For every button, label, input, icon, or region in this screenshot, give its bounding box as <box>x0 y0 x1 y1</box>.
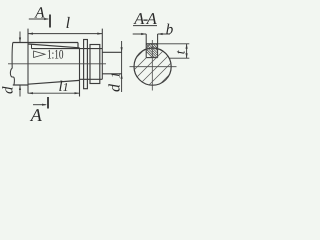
section cutting plane stroke top <box>49 15 51 28</box>
section cutting plane stroke bottom <box>47 97 49 109</box>
A-A label underline <box>133 25 157 27</box>
section arrow line top <box>29 18 48 20</box>
hatching of shaft section <box>112 22 202 112</box>
arrow: t bottom pointing down <box>186 53 188 58</box>
dimension d line segments with outside arrows <box>19 32 21 97</box>
svg-text:A: A <box>34 5 45 22</box>
wire: keyway bottom shelf and cylinder top edge <box>32 48 103 50</box>
arrow: l left <box>28 33 33 35</box>
node: step face with l extension <box>101 29 103 80</box>
svg-text:A: A <box>30 105 43 125</box>
section circle A-A <box>134 48 171 85</box>
arrow: l right <box>97 33 102 35</box>
arrow: section cut bottom pointing right <box>42 104 47 106</box>
wire: cone end face with l1 extension <box>79 48 81 97</box>
arrow: l1 left <box>28 92 33 94</box>
wire: cylinder bottom edge after cone <box>80 78 103 80</box>
arrow: section cut top pointing right <box>44 18 49 20</box>
dimension t extension lines <box>146 44 189 58</box>
arrow: b left pointing right <box>141 33 146 35</box>
section vertical centerline <box>151 40 153 91</box>
svg-text:l: l <box>66 15 71 32</box>
wire: cone top generatrix <box>28 44 80 48</box>
svg-text:l1: l1 <box>59 79 69 95</box>
arrow: d top pointing down <box>19 38 21 43</box>
section horizontal centerline <box>130 66 177 68</box>
dimension d1 line <box>121 41 123 92</box>
keyway slot bottom <box>146 57 157 59</box>
arrow: d1 bottom pointing up <box>121 74 123 79</box>
component: collar ring 2 <box>90 45 100 84</box>
hatching of key section <box>135 40 174 60</box>
wire: cone bottom generatrix <box>28 80 80 84</box>
node: cone large end vertical with l and l1 extensions <box>27 29 29 94</box>
svg-text:1:10: 1:10 <box>47 47 64 62</box>
arrow: t top pointing up <box>186 44 188 49</box>
keyway side walls and b extensions <box>146 34 157 58</box>
svg-text:d: d <box>1 86 17 94</box>
wire: break line at left end of shaft <box>10 43 14 86</box>
key top edge <box>146 43 157 45</box>
wire: shaft top edge with key top line <box>13 42 78 44</box>
taper symbol triangle <box>34 51 45 58</box>
arrowheads <box>19 18 188 106</box>
wire: main axis centerline <box>8 63 106 65</box>
wire: small cylinder top edge <box>102 51 122 53</box>
section arrow line bottom <box>33 104 46 106</box>
svg-text:A-A: A-A <box>133 9 157 28</box>
wire: taper leader jog <box>31 44 33 48</box>
arrow: d bottom pointing up <box>19 85 21 90</box>
dimension t line <box>186 44 188 58</box>
wire: small cylinder bottom edge <box>102 73 122 75</box>
arrow: b right pointing left <box>158 33 163 35</box>
wire: key right end face <box>77 43 79 48</box>
wire: shaft bottom edge <box>13 84 28 86</box>
arrow: l1 right <box>75 92 80 94</box>
dimension b line segments <box>133 33 170 35</box>
dimension l line <box>28 33 102 35</box>
dimension l1 line <box>28 92 80 94</box>
component: collar ring 1 <box>84 40 88 89</box>
svg-text:b: b <box>166 22 174 38</box>
arrow: d1 top pointing down <box>121 47 123 52</box>
